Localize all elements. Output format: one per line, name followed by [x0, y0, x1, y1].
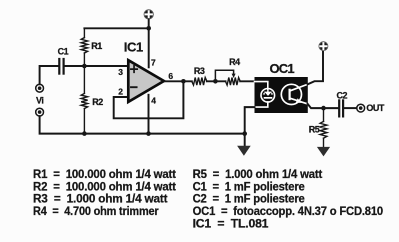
wire feedback pin2 loop: [114, 81, 184, 118]
wire trimmer bracket: [215, 70, 233, 81]
wire cathode to ground rail: [245, 107, 255, 134]
node emitter/C2/R5: [321, 106, 326, 111]
svg-text:7: 7: [151, 58, 156, 68]
resistor R5: [320, 108, 327, 147]
wire R4 to OC1: [240, 80, 254, 82]
OC1 internal anode wire: [255, 82, 268, 90]
wire Vi bottom to ground rail: [40, 116, 245, 133]
resistor R3: [192, 78, 207, 86]
wire C2 to OUT: [344, 107, 356, 109]
svg-text:IC1: IC1: [124, 39, 143, 54]
resistor R2: [81, 66, 87, 134]
OC1 phototransistor circle: [281, 84, 301, 104]
svg-text:R5: R5: [309, 124, 320, 134]
wire V+ down to pin 7: [148, 19, 150, 67]
OC1 internal cathode wire: [255, 102, 268, 107]
node rail ground junction: [242, 131, 247, 136]
wire op-amp output: [165, 80, 192, 82]
svg-text:R1: R1: [91, 41, 102, 51]
ground symbol right: [317, 147, 330, 157]
node pin4 on rail: [146, 131, 151, 136]
supply terminal V+ left: [144, 10, 153, 19]
wire R3 to R4: [207, 80, 226, 82]
svg-text:C2: C2: [337, 91, 348, 101]
op-amp minus input symbol: [131, 86, 137, 88]
svg-text:3: 3: [118, 67, 123, 77]
wire collector to V+ right: [308, 51, 323, 85]
ground symbol left: [237, 146, 251, 156]
svg-text:OC1: OC1: [270, 61, 295, 76]
svg-text:R3: R3: [194, 66, 205, 76]
terminal Vi top: [36, 84, 44, 92]
svg-text:2: 2: [118, 86, 123, 96]
trimmer arrow head: [232, 74, 236, 78]
wire C1 to op-amp pin 3: [65, 65, 128, 67]
svg-text:IC1 = TL.081: IC1 = TL.081: [193, 216, 269, 230]
svg-text:OUT: OUT: [366, 103, 385, 113]
terminal Vi bottom: [36, 108, 44, 116]
wire rail to ground symbol: [244, 134, 246, 146]
node junction C1/R1/R2: [82, 64, 87, 69]
node R3/R4 junction: [213, 79, 218, 84]
op-amp U1 triangle: [128, 60, 164, 102]
node R2 on rail: [82, 131, 87, 136]
supply terminal V+ right: [319, 42, 328, 51]
optocoupler OC1 body: [255, 77, 308, 113]
op-amp plus input symbol: [131, 66, 137, 72]
node junction top rail: [146, 26, 151, 31]
svg-text:R4 = 4.700 ohm trimmer: R4 = 4.700 ohm trimmer: [33, 204, 159, 218]
svg-text:Vi: Vi: [36, 96, 43, 106]
parts list right column: [193, 167, 384, 230]
svg-text:6: 6: [168, 71, 173, 81]
wire emitter to output node: [308, 104, 339, 108]
resistor R1: [81, 28, 87, 66]
terminal OUT: [357, 104, 365, 112]
svg-text:R4: R4: [229, 57, 240, 67]
OC1 emitter arrow: [296, 98, 302, 103]
node output junction: [181, 79, 186, 84]
parts list left column: [33, 167, 176, 218]
OC1 LED symbol: [263, 89, 274, 99]
capacitor C1: [59, 59, 63, 74]
svg-text:C1: C1: [58, 47, 69, 57]
wire pin 4 down: [148, 95, 150, 134]
resistor R4 trimmer: [226, 78, 241, 86]
wire top rail R1 to V+: [84, 27, 148, 29]
OC1 LED circle: [261, 89, 275, 103]
OC1 emitter line internal: [291, 98, 308, 104]
OC1 transistor base bar: [289, 89, 291, 101]
svg-text:4: 4: [151, 95, 156, 105]
wire Vi top to C1: [40, 66, 59, 84]
capacitor C2: [339, 100, 343, 116]
svg-text:R2: R2: [92, 97, 103, 107]
OC1 collector line internal: [291, 84, 308, 90]
